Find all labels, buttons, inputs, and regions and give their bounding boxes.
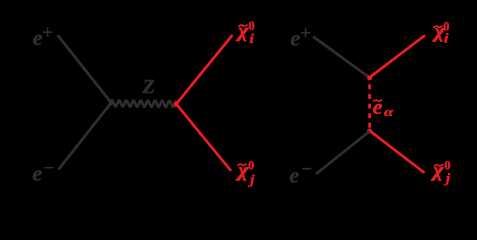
positron label e+ (right diagram) [290, 23, 311, 51]
svg-text:e: e [290, 26, 300, 51]
neutralino label chi^0_i (left diagram) [235, 19, 255, 46]
vertex (left diagram, Z-neutralino junction) [174, 101, 179, 106]
vertex (right diagram, top) [367, 76, 372, 81]
svg-text:−: − [44, 158, 55, 179]
neutralino line to chi_j (right diagram) [370, 131, 425, 173]
neutralino label chi^0_j (left diagram) [235, 158, 255, 187]
selectron dashed propagator e~_alpha [368, 84, 371, 128]
neutralino line to chi_j (left diagram) [176, 104, 231, 171]
positron line e+ (left diagram) [58, 35, 112, 103]
neutralino label chi^0_j (right diagram) [430, 159, 451, 186]
positron label e+ (left diagram) [33, 23, 53, 50]
svg-text:e: e [373, 94, 383, 119]
svg-text:e: e [289, 163, 299, 188]
svg-text:Z: Z [142, 76, 155, 98]
svg-text:i: i [444, 31, 450, 46]
positron line e+ (right diagram) [313, 37, 370, 78]
svg-text:+: + [42, 23, 53, 44]
electron line e- (right diagram) [316, 131, 370, 174]
svg-text:+: + [300, 23, 311, 44]
svg-text:e: e [32, 160, 42, 185]
neutralino line to chi_i (left diagram) [176, 35, 232, 104]
Z boson wavy propagator [111, 100, 176, 107]
svg-text:−: − [301, 159, 312, 180]
electron label e- (left diagram) [32, 158, 54, 186]
neutralino label chi^0_i (right diagram) [432, 20, 450, 47]
selectron label e~_alpha [373, 94, 395, 119]
neutralino line to chi_i (right diagram) [370, 35, 426, 77]
svg-text:0: 0 [248, 158, 254, 172]
electron label e- (right diagram) [289, 159, 312, 187]
vertex (left diagram, e+e-Z junction) [109, 101, 114, 106]
electron line e- (left diagram) [59, 103, 112, 170]
svg-text:e: e [33, 25, 43, 50]
vertex (right diagram, bottom) [367, 129, 372, 134]
svg-text:α: α [384, 106, 394, 119]
svg-text:i: i [249, 32, 255, 47]
